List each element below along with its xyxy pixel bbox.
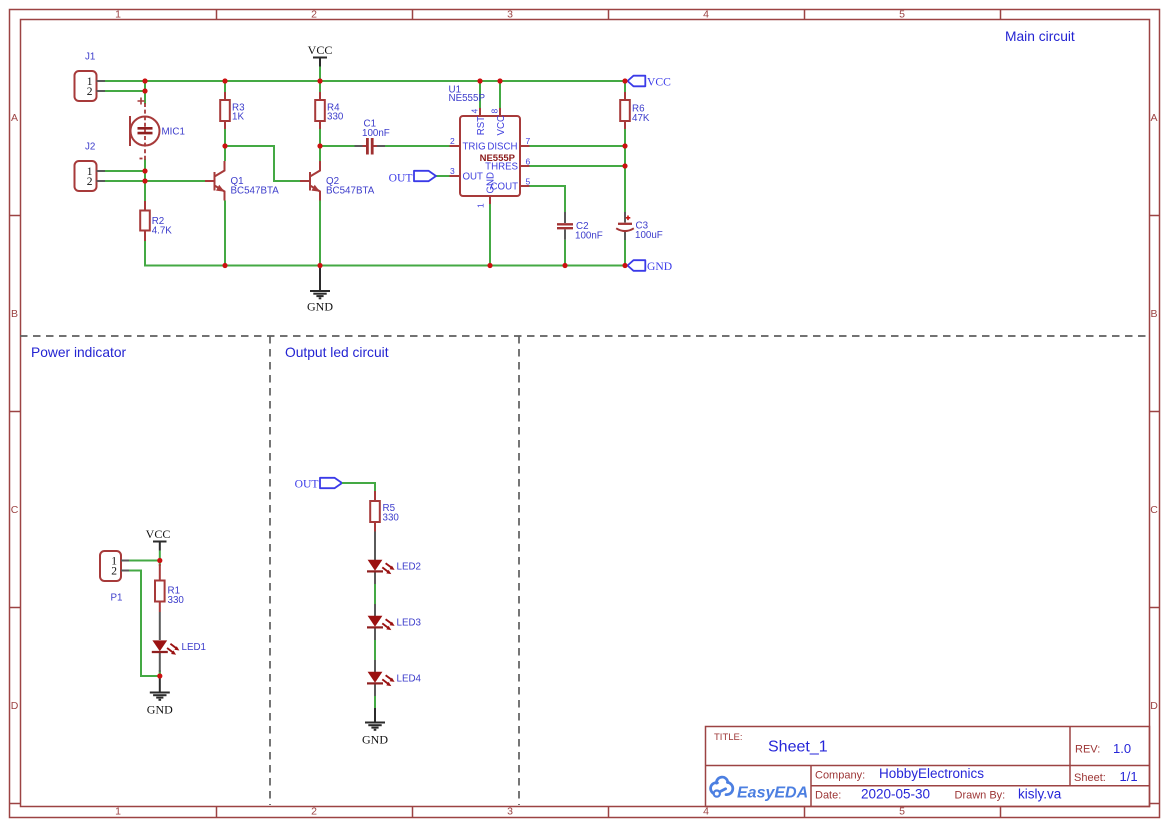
svg-text:2: 2 [450,136,455,146]
wire C1 to U1 TRIG [390,145,450,147]
microphone MIC1 [130,98,185,161]
svg-text:1: 1 [115,806,121,818]
capacitor C3 polarized [616,212,663,241]
EasyEDA logo [711,777,809,801]
svg-text:4.7K: 4.7K [152,226,173,237]
title block column line logo [810,766,812,807]
wire R3 top [224,81,226,92]
net flag OUT main [389,171,436,185]
wire R3 bottom to Q1 collector [224,129,226,161]
svg-text:330: 330 [383,513,400,524]
wire mic bottom to R2 [144,159,146,201]
svg-text:3: 3 [507,806,513,818]
wire OUT flag to U1 pin3 [436,175,450,177]
title block column line rev [1069,727,1071,786]
svg-text:GND: GND [362,733,388,747]
resistor R5 [370,491,399,532]
junction DISCH / R6 node [622,143,627,148]
svg-text:2020-05-30: 2020-05-30 [861,787,930,802]
svg-text:1.0: 1.0 [1113,741,1131,756]
svg-text:OUT: OUT [295,478,319,491]
wire Q2 emitter to ground rail [319,201,321,266]
svg-text:MIC1: MIC1 [162,127,185,138]
LED LED3 [367,604,422,640]
wire U1 pin8 to VCC rail [499,81,501,108]
svg-text:4: 4 [703,9,709,21]
svg-text:Output led circuit: Output led circuit [285,345,389,360]
transistor Q1 [205,161,279,201]
svg-text:GND: GND [147,703,173,717]
svg-text:Date:: Date: [815,790,841,802]
svg-text:P1: P1 [111,593,123,604]
U1 pin 8 stub [499,108,501,116]
svg-text:C: C [1150,504,1158,516]
U1 pin 7 stub [520,145,530,147]
svg-text:OUT: OUT [389,172,413,185]
svg-text:D: D [1150,700,1158,712]
wire P1 pin1 to node [129,560,160,562]
resistor R3 [220,92,245,129]
svg-text:LED3: LED3 [397,618,422,629]
connector J2 [75,142,106,192]
junction J1 pin2 / MIC1 [142,88,147,93]
svg-text:VCC: VCC [146,527,171,541]
svg-text:DISCH: DISCH [487,142,517,153]
svg-text:8: 8 [490,109,500,114]
resistor R2 [140,201,172,241]
wire J2 pin1 [105,170,145,172]
svg-text:LED1: LED1 [182,642,207,653]
svg-text:LED4: LED4 [397,674,422,685]
dashed section divider horizontal [20,335,1148,337]
junction VCC flag / VCC rail [622,78,627,83]
svg-text:BC547BTA: BC547BTA [231,186,280,197]
svg-text:330: 330 [168,595,185,606]
capacitor C2 [557,212,603,242]
U1 pin 5 stub [520,185,530,187]
svg-text:2: 2 [311,806,317,818]
junction J2 pin1 / MIC1 [142,168,147,173]
svg-text:2: 2 [87,176,93,188]
svg-text:Sheet_1: Sheet_1 [768,739,828,756]
svg-text:HobbyElectronics: HobbyElectronics [879,766,984,781]
junction Q1 collector node [222,143,227,148]
ruler column numbers top [115,9,905,21]
wire LED4 to ground [374,696,376,710]
svg-text:3: 3 [450,166,455,176]
svg-text:100nF: 100nF [362,128,390,139]
svg-text:Sheet:: Sheet: [1074,772,1106,784]
title block row line 1 [706,765,1150,767]
svg-text:LED2: LED2 [397,562,422,573]
U1 pin 6 stub [520,165,530,167]
svg-text:TRIG: TRIG [463,142,486,153]
wire J1 pin2 to mic node [105,91,145,104]
capacitor C1 [349,119,390,155]
svg-text:GND: GND [307,300,333,314]
wire C2 bottom to ground rail [564,240,566,266]
wire LED3 to LED4 [374,640,376,662]
wire node J1 pins vertical [144,81,146,91]
svg-text:47K: 47K [632,113,650,124]
wire U1 pin6 to R6 node [529,165,625,167]
svg-text:1K: 1K [232,112,244,123]
title block outline [706,727,1150,807]
svg-text:2: 2 [87,86,93,98]
wire LED2 to LED3 [374,584,376,606]
title block row line 2 [811,785,1150,787]
junction U1 pin4 / VCC rail [477,78,482,83]
wire P1 pin2 to ground node [129,571,160,677]
svg-text:BC547BTA: BC547BTA [326,186,375,197]
svg-text:VCC: VCC [647,76,671,89]
wire R1 bottom segment [159,670,161,676]
wire U1 pin4 to VCC rail [479,81,481,108]
svg-text:2: 2 [311,9,317,21]
LED LED1 [152,612,206,672]
svg-text:J2: J2 [85,142,95,153]
svg-text:REV:: REV: [1075,744,1100,756]
svg-text:EasyEDA: EasyEDA [737,785,808,802]
junction Q1 emitter / ground rail [222,263,227,268]
U1 pin 3 stub [450,175,461,177]
junction U1 pin8 / VCC rail [497,78,502,83]
svg-text:C: C [11,504,19,516]
svg-text:J1: J1 [85,52,95,63]
junction R3 top / VCC rail [222,78,227,83]
ruler tick marks top [217,10,1001,20]
resistor R6 [620,92,650,129]
dashed section divider vertical 1 [269,336,271,805]
resistor R1 [155,564,184,612]
svg-text:330: 330 [327,112,344,123]
svg-text:B: B [11,308,18,320]
svg-text:GND: GND [647,260,672,273]
wire R6 bottom to C3 [624,129,626,212]
ground symbol led circuit [362,708,388,747]
junction GND symbol / ground rail [317,263,322,268]
junction P1 pin1 / VCC node [157,558,162,563]
junction Q2 collector node [317,143,322,148]
svg-text:Drawn By:: Drawn By: [955,790,1006,802]
transistor Q2 [300,161,375,201]
svg-text:Company:: Company: [815,770,865,782]
power symbol VCC main [308,43,333,67]
svg-text:6: 6 [526,157,531,167]
svg-text:OUT: OUT [463,172,484,183]
wire C3 bottom to GND flag [624,240,626,266]
ground symbol main [307,266,333,314]
svg-text:NE555P: NE555P [480,153,516,164]
ruler row letters left [11,112,19,712]
svg-text:4: 4 [703,806,709,818]
power symbol VCC indicator [146,527,171,551]
wire VCC top rail [105,80,627,82]
dashed section divider vertical 2 [518,336,520,805]
wire J2 pin2 to Q1 base [105,180,205,182]
connector P1 [100,551,129,604]
svg-text:TITLE:: TITLE: [714,732,743,743]
junction R4 top / VCC rail [317,78,322,83]
ground symbol indicator [147,676,173,717]
junction THRES / R6 node [622,163,627,168]
junction J1 pin1 / VCC rail [142,78,147,83]
resistor R4 [315,92,344,129]
wire R2 bottom to ground rail [145,241,627,266]
LED LED4 [367,660,422,696]
svg-text:GND: GND [486,172,497,194]
svg-text:5: 5 [526,177,531,187]
junction P1 pin2 / ground node [157,673,162,678]
ruler tick marks left [10,216,21,804]
U1 pin 4 stub [479,108,481,116]
svg-text:7: 7 [526,136,531,146]
wire U1 pin5 to C2 [529,186,565,212]
svg-text:D: D [11,700,19,712]
wire Q1 emitter to ground rail [224,201,226,266]
svg-text:VCC: VCC [496,115,507,135]
wire VCC symbol to node [159,551,161,567]
svg-text:2: 2 [111,566,117,578]
wire Q2 collector node to C1 [320,145,349,147]
wire LED1 to ground [159,672,161,678]
svg-text:Power indicator: Power indicator [31,345,126,360]
junction U1 pin1 / ground rail [487,263,492,268]
U1 pin 2 stub [450,145,461,147]
svg-text:B: B [1150,308,1157,320]
svg-text:A: A [1150,112,1157,124]
svg-text:5: 5 [899,806,905,818]
junction J2 pin2 / Q1 base wire [142,178,147,183]
U1 pin 1 stub [489,196,491,204]
svg-text:100uF: 100uF [635,230,663,241]
svg-text:1: 1 [115,9,121,21]
svg-text:4: 4 [470,109,480,114]
svg-text:Main circuit: Main circuit [1005,29,1075,44]
svg-text:VCC: VCC [308,43,333,57]
svg-text:5: 5 [899,9,905,21]
svg-text:1/1: 1/1 [1120,769,1138,784]
svg-text:kisly.va: kisly.va [1018,787,1062,802]
svg-text:100nF: 100nF [575,231,603,242]
wire VCC symbol to R4 [319,67,321,93]
connector J1 [75,52,106,102]
junction C3 / GND flag / ground rail [622,263,627,268]
ruler column numbers bottom [115,806,905,818]
wire OUT flag to R5 [342,483,375,491]
svg-text:A: A [11,112,18,124]
wire R4 bottom to Q2 collector [319,129,321,161]
net flag OUT led circuit [295,478,342,491]
svg-text:RST: RST [476,116,487,135]
LED LED2 [367,532,421,585]
ruler tick marks bottom [217,807,1001,818]
wire right rail VCC to R6 [624,81,626,92]
wire U1 pin7 to R6 node [529,145,625,147]
junction C2 / ground rail [562,263,567,268]
IC U1 NE555P [449,85,531,209]
wire U1 pin1 to ground rail [489,204,491,266]
svg-text:3: 3 [507,9,513,21]
ruler row letters right [1150,112,1158,712]
svg-text:NE555P: NE555P [449,93,486,104]
net flag VCC right [628,76,672,89]
wire Q1 collector to Q2 base [225,146,300,181]
svg-text:1: 1 [476,203,486,208]
ruler tick marks right [1150,216,1160,804]
net flag GND right [628,260,673,273]
